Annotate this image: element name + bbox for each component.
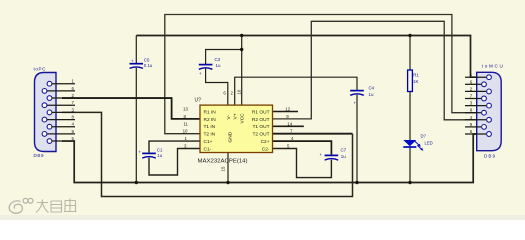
wire chip pin7 T2OUT row (thick) <box>273 133 353 135</box>
light bottom strip <box>0 215 525 220</box>
svg-text:+: + <box>354 100 357 105</box>
connector toPC pin numbers <box>72 79 75 141</box>
junction dot GND bus / LED <box>408 181 411 184</box>
svg-text:6: 6 <box>223 91 226 96</box>
svg-text:toMCU: toMCU <box>482 64 503 69</box>
wire LED cathode to GND bus <box>409 147 411 183</box>
svg-text:1K: 1K <box>413 79 418 84</box>
wire C4 bottom to GND bus <box>356 95 358 183</box>
svg-text:4: 4 <box>72 122 75 127</box>
svg-text:2: 2 <box>470 86 473 91</box>
svg-text:+: + <box>131 58 134 63</box>
wire chip V- pin6 to C2 bottom <box>206 69 228 106</box>
svg-text:R1 OUT: R1 OUT <box>252 109 270 115</box>
U? right pin numbers <box>285 107 294 149</box>
svg-text:8: 8 <box>72 115 75 120</box>
svg-text:R1 IN: R1 IN <box>204 109 217 115</box>
watermark logo bottom-left <box>9 198 76 213</box>
junction dot VCC bus / chip VCC riser <box>240 34 243 37</box>
junction dot GND bus / C4 <box>355 181 358 184</box>
svg-text:T2 OUT: T2 OUT <box>252 132 269 138</box>
svg-text:GND: GND <box>228 131 234 142</box>
svg-text:4: 4 <box>470 115 473 120</box>
capacitor C3 <box>199 65 213 70</box>
junction dot VCC bus / R1 riser <box>408 34 411 37</box>
wire net R2OUT: chip pin9 to MCU DB9 pin row 7 (line B) <box>273 21 477 120</box>
svg-text:6: 6 <box>72 86 75 91</box>
wire net T2IN: chip pin10 to MCU DB9 pin row 6 (line A) <box>165 15 477 134</box>
svg-text:9: 9 <box>286 114 289 119</box>
svg-text:10: 10 <box>183 129 188 134</box>
connector toMCU pin numbers <box>470 72 473 134</box>
U? left pin numbers <box>183 107 189 149</box>
wire C5 riser bottom (C5 to GND bus) <box>135 68 137 183</box>
svg-text:5: 5 <box>287 144 290 149</box>
svg-text:MAX232ACPE(14): MAX232ACPE(14) <box>198 159 248 165</box>
svg-text:3: 3 <box>184 144 187 149</box>
svg-text:9: 9 <box>72 129 75 134</box>
svg-text:T1 OUT: T1 OUT <box>252 124 269 130</box>
U? right pin name labels <box>252 109 270 152</box>
svg-text:DB9: DB9 <box>484 154 495 159</box>
svg-text:V-: V- <box>226 115 232 120</box>
svg-text:11: 11 <box>183 121 188 126</box>
svg-text:9: 9 <box>470 122 473 127</box>
connector toMCU pin stubs <box>465 77 486 134</box>
wire chip V+ pin2 to C4 top <box>235 77 357 105</box>
svg-text:R2 IN: R2 IN <box>204 117 217 123</box>
svg-text:T2 IN: T2 IN <box>204 132 216 138</box>
svg-text:13: 13 <box>183 107 188 112</box>
svg-text:C4: C4 <box>369 85 375 90</box>
svg-text:C5: C5 <box>144 58 150 63</box>
svg-text:C1: C1 <box>157 147 163 152</box>
svg-text:1u: 1u <box>341 154 346 159</box>
svg-text:15: 15 <box>221 166 226 171</box>
wire C2 top to VCC riser <box>206 50 242 65</box>
U? left pin name labels <box>204 109 217 152</box>
svg-text:D?: D? <box>421 134 427 139</box>
svg-text:toPC: toPC <box>34 66 47 71</box>
LED D? <box>403 140 423 151</box>
connector toMCU pins (circles) <box>482 75 492 137</box>
svg-text:DB9: DB9 <box>34 153 44 158</box>
wire C1 bottom loop to chip pin3 C1- <box>149 149 200 176</box>
svg-text:1u: 1u <box>216 63 221 68</box>
svg-text:1: 1 <box>72 79 75 84</box>
wire chip GND pin15 riser to GND bus <box>227 153 229 183</box>
wire chip pin12 R1OUT stub (free end) <box>273 111 299 113</box>
svg-text:16: 16 <box>236 89 241 94</box>
connector toPC pins (circles) <box>42 81 52 143</box>
svg-text:+: + <box>139 149 142 154</box>
wire VCC bus (top, y=35.5) <box>136 36 476 78</box>
wire R1 top riser (VCC bus to R1) <box>409 36 411 71</box>
svg-text:V+: V+ <box>233 113 239 119</box>
capacitor C4 <box>350 91 364 96</box>
svg-text:+: + <box>199 71 202 76</box>
svg-text:C7: C7 <box>341 148 347 153</box>
resistor R1 <box>408 70 413 92</box>
wire net PC-TXD: PC DB9 pin3 down around bottom to chip pin7 T2OUT <box>62 112 353 196</box>
connector J-MCU DB9 body (toMCU) <box>477 72 502 150</box>
svg-text:R1: R1 <box>413 73 419 78</box>
wire chip VCC pin16 riser to VCC bus <box>241 36 243 106</box>
svg-text:12: 12 <box>285 107 290 112</box>
svg-text:7: 7 <box>470 94 473 99</box>
wire C5 riser top (VCC bus to C5) <box>135 36 137 64</box>
svg-text:C2-: C2- <box>262 146 270 152</box>
wire R1 bottom to LED anode <box>409 92 411 141</box>
svg-text:U?: U? <box>195 98 202 104</box>
connector J-PC DB9 body (toPC) <box>35 73 57 152</box>
svg-text:C1-: C1- <box>204 146 212 152</box>
svg-text:8: 8 <box>470 108 473 113</box>
wire chip pin1 C1+ to C1 top <box>149 141 200 152</box>
wire net PC-RXD: PC DB9 pin2 to chip pin8 R2IN (thick) <box>62 98 200 119</box>
svg-text:+: + <box>320 152 323 157</box>
junction dot GND bus / chip GND <box>226 181 229 184</box>
svg-text:7: 7 <box>72 100 75 105</box>
svg-text:T1 IN: T1 IN <box>204 124 216 130</box>
wire chip pin4 C2+ to C7 top <box>273 141 332 154</box>
svg-text:5: 5 <box>470 129 473 134</box>
svg-text:R2 OUT: R2 OUT <box>252 117 270 123</box>
svg-text:VCC: VCC <box>240 113 246 124</box>
wire C7 bottom loop to chip pin5 C2- <box>273 149 332 178</box>
wire GND bus: PC DB9 pin5 along bottom to MCU DB9 pin5 <box>62 134 477 183</box>
junction dot GND bus / C5 <box>135 181 138 184</box>
junction dot C2 top line / VCC riser <box>240 48 243 51</box>
svg-text:C3: C3 <box>215 57 221 62</box>
capacitor C7 <box>325 155 339 160</box>
capacitor C1 <box>142 153 156 158</box>
svg-text:1u: 1u <box>369 92 374 97</box>
svg-text:6: 6 <box>470 79 473 84</box>
svg-text:2: 2 <box>231 91 234 96</box>
capacitor C5 <box>130 64 144 69</box>
svg-text:LED: LED <box>425 140 433 145</box>
svg-text:0.1u: 0.1u <box>144 63 153 68</box>
svg-text:14: 14 <box>287 121 292 126</box>
svg-text:C2+: C2+ <box>261 139 270 145</box>
svg-text:1: 1 <box>185 136 188 141</box>
svg-text:3: 3 <box>470 101 473 106</box>
svg-text:1u: 1u <box>157 153 162 158</box>
wire chip pin14 T1OUT stub (free end) <box>273 125 304 127</box>
svg-text:C1+: C1+ <box>204 139 213 145</box>
connector toPC pin stubs <box>47 84 75 141</box>
op-amp U? MAX232 body <box>200 105 273 152</box>
